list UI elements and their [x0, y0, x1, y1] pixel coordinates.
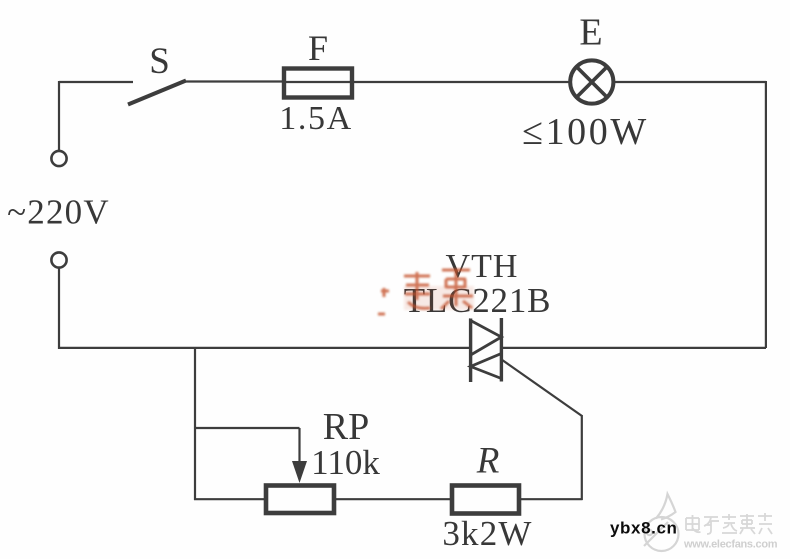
svg-text:ybx8.cn: ybx8.cn [610, 519, 678, 538]
wire lamp to top-right corner [614, 81, 766, 83]
switch S blade [128, 81, 186, 105]
svg-text:~220V: ~220V [7, 193, 110, 232]
wire gate diagonal [502, 360, 583, 417]
potentiometer RP body [266, 486, 334, 514]
svg-text:F: F [308, 28, 328, 68]
svg-text:1.5A: 1.5A [279, 100, 352, 137]
wire middle horizontal left of triac [58, 347, 470, 349]
red watermark overlay [378, 270, 474, 314]
svg-text:110k: 110k [311, 443, 380, 482]
gray elecfans watermark CJK text (drawn) [686, 513, 772, 534]
wire left vertical upper [58, 81, 60, 151]
svg-text:≤100W: ≤100W [522, 111, 649, 153]
terminal upper circle [51, 151, 66, 166]
wire left vertical lower [58, 268, 60, 350]
triac top triangle [471, 321, 502, 356]
svg-text:www.elecfans.com: www.elecfans.com [683, 539, 778, 551]
lamp E circle [570, 60, 613, 103]
svg-text:R: R [476, 441, 500, 482]
wire wiper tap horizontal [195, 427, 300, 429]
wire branch vertical at x=195 [194, 348, 196, 500]
wire right vertical [765, 81, 767, 348]
triac VTH left bar [469, 319, 472, 383]
lamp E cross [577, 67, 607, 97]
wire through fuse to lamp [283, 81, 570, 83]
svg-text:E: E [579, 12, 602, 54]
wire wiper tap vertical [298, 428, 300, 465]
wire top-left horizontal [59, 81, 133, 83]
resistor R body [452, 486, 519, 514]
triac VTH right bar [500, 318, 503, 382]
wire RP to R [335, 498, 451, 500]
svg-text:3k2W: 3k2W [442, 514, 532, 553]
wire switch to fuse [184, 80, 283, 82]
wire bottom left segment [194, 498, 265, 500]
wire R to right corner [519, 498, 583, 500]
gray elecfans watermark logo swirl [644, 494, 679, 551]
fuse F body [284, 69, 352, 98]
wire gate vertical [581, 415, 583, 500]
potentiometer wiper arrowhead [292, 461, 307, 483]
triac bottom triangle [471, 354, 502, 379]
svg-text:S: S [149, 41, 170, 82]
terminal lower circle [51, 252, 66, 267]
wire middle horizontal right of triac [502, 347, 767, 349]
svg-text:RP: RP [323, 406, 369, 448]
